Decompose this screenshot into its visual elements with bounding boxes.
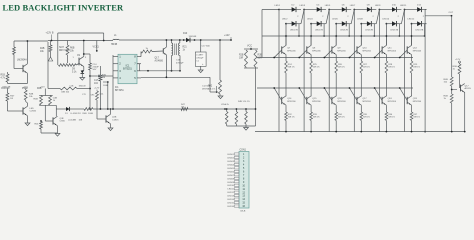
- wire Q19 emitter: [411, 105, 413, 112]
- wire VCC bottom: [244, 67, 258, 69]
- svg-text:MPS2206: MPS2206: [337, 101, 345, 103]
- svg-text:R4B: R4B: [83, 113, 88, 115]
- resistor R36 30R lower: [385, 112, 388, 121]
- transistor Q18 A1015: [460, 85, 462, 92]
- wire col 4 to rail: [360, 121, 362, 132]
- node LED5: [328, 9, 330, 11]
- resistor R4B 10k: [49, 45, 52, 52]
- svg-text:1R: 1R: [10, 98, 13, 100]
- svg-text:20R 1%: 20R 1%: [363, 67, 370, 69]
- wire LED vertical A col 4: [353, 10, 355, 132]
- wire Q11 base: [375, 50, 383, 58]
- wire h net 109: [70, 108, 84, 110]
- wire diag col 1: [301, 10, 304, 24]
- wire loop top: [58, 32, 104, 34]
- svg-text:100B: 100B: [88, 113, 93, 115]
- svg-text:Q3F: Q3F: [60, 118, 65, 120]
- zener diode D5: [81, 71, 84, 74]
- svg-text:50V: 50V: [93, 69, 97, 71]
- svg-text:+12V: +12V: [455, 59, 461, 61]
- resistor R26 20R upper: [335, 61, 338, 73]
- svg-text:C17 600: C17 600: [202, 46, 211, 48]
- wire Q18 emitter to rail: [464, 92, 466, 132]
- wire LED vertical A col 3: [328, 10, 330, 132]
- diode D12 top: [405, 9, 418, 11]
- IC U1 pin 1: [113, 56, 118, 58]
- svg-text:LED04: LED04: [227, 164, 234, 166]
- svg-text:LED: LED: [30, 108, 35, 110]
- wire Q7 base: [274, 50, 282, 58]
- IC U1 pin 3: [113, 70, 118, 72]
- svg-text:LED10: LED10: [382, 18, 389, 20]
- svg-text:LED12: LED12: [227, 192, 234, 194]
- transistor Q11 MPS2206 upper: [381, 46, 383, 53]
- wire pin6 right: [141, 70, 180, 72]
- CON1 pin 15: [234, 201, 239, 203]
- svg-text:LED17B: LED17B: [365, 30, 373, 32]
- diode D2 top: [279, 9, 292, 11]
- svg-text:C945: C945: [60, 121, 66, 123]
- svg-text:LED06: LED06: [227, 171, 234, 173]
- CON1 pin 6: [234, 170, 239, 172]
- wire LED vertical B col 6: [411, 24, 413, 46]
- svg-text:R4B: R4B: [444, 96, 449, 98]
- wire Q9 base: [324, 50, 332, 58]
- svg-text:C1Y: C1Y: [82, 94, 87, 96]
- svg-text:LED15: LED15: [227, 203, 234, 205]
- svg-text:MPS2206: MPS2206: [312, 50, 320, 52]
- diode D10 1N4148 on rail: [186, 38, 190, 42]
- wire drop col 1: [298, 24, 300, 36]
- svg-text:1N4148: 1N4148: [79, 86, 87, 88]
- wire col 3 to rail: [335, 121, 337, 132]
- CON1 pin 4: [234, 163, 239, 165]
- svg-text:MPS2206: MPS2206: [287, 50, 295, 52]
- svg-text:30R 1%: 30R 1%: [413, 117, 420, 119]
- svg-text:+12V: +12V: [40, 86, 46, 88]
- svg-text:LED1: LED1: [275, 5, 281, 7]
- diode D2b bottom: [286, 23, 292, 25]
- svg-text:DRV MGR: DRV MGR: [59, 50, 70, 52]
- resistor R37 30R lower: [410, 112, 413, 121]
- transistor Q9 MPS2206 upper: [331, 46, 333, 53]
- wire rail to +12V right: [119, 39, 231, 41]
- svg-text:MPS2206: MPS2206: [363, 50, 371, 52]
- resistor R25 20R upper: [310, 61, 313, 73]
- IC U1 BIT3251: [118, 54, 137, 83]
- CON1 pin 9: [234, 181, 239, 183]
- wire Q12 base: [400, 50, 408, 58]
- wire to Q3 base: [44, 105, 46, 121]
- wire v 106.8: [107, 82, 109, 109]
- wire last cell out: [425, 9, 426, 11]
- CON1 pin 2: [234, 156, 239, 158]
- transistor Q3 C945: [52, 117, 54, 124]
- wire out vertical: [451, 16, 453, 77]
- wire Q3 emitter: [57, 126, 59, 133]
- svg-text:30R 1%: 30R 1%: [388, 117, 395, 119]
- svg-text:R5B: R5B: [453, 66, 458, 68]
- transistor Q19 MPS2206 lower: [406, 97, 408, 104]
- resistor R4T 1R: [6, 89, 8, 94]
- wire R pair top: [39, 95, 53, 97]
- CON1 pin 12: [234, 191, 239, 193]
- diode D6b bottom: [336, 23, 342, 25]
- resistor R33 30R lower: [310, 112, 313, 121]
- wire Q7 collector: [285, 36, 287, 45]
- svg-text:IC1: IC1: [126, 65, 130, 68]
- wire Q1 collector: [26, 41, 28, 64]
- svg-text:1M: 1M: [102, 77, 105, 79]
- svg-text:+12V B: +12V B: [46, 32, 54, 35]
- CON1 pin 10: [234, 184, 239, 186]
- svg-text:MPS2206: MPS2206: [413, 50, 421, 52]
- wire LED vertical A col 5: [378, 10, 380, 132]
- CON1 pin 5: [234, 167, 239, 169]
- wire diag col 4: [376, 10, 379, 24]
- wire Q17 base: [350, 88, 358, 101]
- wire R pair bottom: [39, 104, 56, 106]
- wire Q18 emitter: [385, 105, 387, 112]
- wire bottom rail: [255, 131, 466, 133]
- resistor R24 20R upper: [285, 61, 288, 73]
- terminal +12V out: [459, 61, 461, 63]
- resistor R28 20R upper: [385, 61, 388, 73]
- resistor R51 10k: [450, 77, 453, 86]
- svg-text:C1B: C1B: [70, 85, 75, 87]
- diode D6 top: [329, 9, 342, 11]
- wire Q10 collector: [360, 36, 362, 45]
- svg-text:MPS2206: MPS2206: [413, 101, 421, 103]
- svg-text:LED4: LED4: [307, 18, 313, 20]
- wire diag col 3: [351, 10, 354, 24]
- wire Q9 emitter: [335, 55, 337, 61]
- svg-text:C8B 100: C8B 100: [61, 92, 70, 94]
- resistor R34 30R lower: [335, 112, 338, 121]
- ground below zener: [80, 78, 85, 81]
- svg-text:CN-B: CN-B: [240, 210, 246, 212]
- svg-text:20R 1%: 20R 1%: [413, 67, 420, 69]
- wire Q14 base: [274, 88, 282, 101]
- IC U1 pin 8: [137, 56, 141, 58]
- resistor R32 30R lower: [285, 112, 288, 121]
- wire Q19 base: [400, 88, 408, 101]
- wire diag col 5: [401, 10, 404, 24]
- wire bank bottom: [227, 125, 256, 127]
- transistor Q17 MPS2206 lower: [356, 97, 358, 104]
- CON1 pin 11: [234, 188, 239, 190]
- CON1 pin 7: [234, 174, 239, 176]
- svg-text:MPS2206: MPS2206: [337, 50, 345, 52]
- wire bottom left: [48, 88, 60, 90]
- transistor Q4 C1815: [105, 115, 107, 122]
- resistor R8B 1M: [60, 87, 77, 90]
- svg-text:Q2B: Q2B: [112, 117, 117, 119]
- svg-text:R4B: R4B: [444, 79, 449, 81]
- svg-text:20R 1%: 20R 1%: [338, 67, 345, 69]
- svg-text:R1B: R1B: [1, 75, 6, 77]
- wire LED vertical A col 2: [303, 10, 305, 132]
- node LED1: [278, 9, 280, 11]
- CON1 pin 3: [234, 160, 239, 162]
- wire h net 109 right: [93, 108, 256, 110]
- wire R52 to rail: [451, 103, 453, 132]
- svg-text:10k 1%: 10k 1%: [208, 89, 215, 91]
- arrow 12V down: [48, 57, 52, 61]
- capacitor C19 electrolytic box: [200, 40, 202, 52]
- svg-text:30R 1%: 30R 1%: [363, 117, 370, 119]
- resistor R6B 10k vertical: [67, 41, 69, 46]
- svg-text:LCMET: LCMET: [196, 55, 204, 57]
- node OUT: [451, 15, 453, 17]
- transistor Q1 C945: [22, 65, 24, 72]
- svg-text:MPS2206: MPS2206: [287, 101, 295, 103]
- resistor R27 20R upper: [360, 61, 363, 73]
- wire Q16 emitter: [335, 105, 337, 112]
- ground Q2L: [25, 123, 30, 126]
- wire pin5 corner: [209, 77, 211, 92]
- IC U1 pin 2: [113, 63, 118, 65]
- svg-text:1.2k: 1.2k: [225, 104, 229, 106]
- svg-text:30R 1%: 30R 1%: [338, 117, 345, 119]
- resistor R42 1k: [49, 96, 52, 106]
- wire base bus y57.5: [257, 57, 413, 59]
- wire LED vertical B col 2: [310, 24, 312, 46]
- svg-text:LL4148 P4: LL4148 P4: [71, 113, 82, 115]
- wire left vertical: [13, 41, 15, 47]
- svg-text:+12V: +12V: [224, 34, 230, 37]
- wire Q2 emitter: [83, 67, 85, 71]
- svg-text:HR4B: HR4B: [111, 44, 118, 46]
- diode D1 LL4148: [56, 108, 66, 110]
- wire Q12 collector: [411, 36, 413, 45]
- resistor R29 20R upper: [410, 61, 413, 73]
- svg-text:LED10: LED10: [227, 185, 234, 187]
- wire Q4 emitter gnd: [110, 124, 112, 128]
- wire LED vertical B col 1: [285, 24, 287, 46]
- wire to Q4 base: [96, 100, 98, 119]
- CON1 pin 13: [234, 195, 239, 197]
- transistor Q14 MPS2206 lower: [281, 97, 283, 104]
- svg-text:1N4148: 1N4148: [189, 36, 197, 38]
- resistor C14 column: [89, 63, 92, 70]
- svg-text:BIT3251: BIT3251: [123, 69, 132, 71]
- svg-text:R4B: R4B: [34, 99, 39, 101]
- svg-text:LED8: LED8: [357, 18, 363, 20]
- wire Q10 base: [350, 50, 358, 58]
- svg-text:BIT3251: BIT3251: [115, 90, 124, 92]
- svg-text:LED16: LED16: [227, 206, 234, 208]
- CON1 pin 8: [234, 177, 239, 179]
- resistor R40 1M vertical: [99, 66, 101, 75]
- wire Q2L collector: [27, 103, 29, 106]
- transistor Q10 MPS2206 upper: [356, 46, 358, 53]
- wire Q18 base: [375, 88, 383, 101]
- transistor Q8 MPS2206 upper: [306, 46, 308, 53]
- transistor Q2L C945: [22, 107, 24, 114]
- diode D10 top: [379, 9, 392, 11]
- wire Q2L emitter to ground: [27, 116, 29, 123]
- wire Q16 base: [324, 88, 332, 101]
- wire col 5 to rail: [385, 121, 387, 132]
- svg-text:LED5: LED5: [325, 5, 331, 7]
- svg-text:LED17B: LED17B: [416, 30, 424, 32]
- node LED11: [404, 9, 406, 11]
- resistor R21 1k IC pin8 to Q17: [140, 52, 142, 57]
- svg-text:LED11: LED11: [228, 189, 235, 191]
- wire drop col 6: [424, 24, 426, 36]
- svg-text:LED17B: LED17B: [390, 30, 398, 32]
- resistor R on left vertical: [13, 47, 16, 55]
- ground R42: [218, 96, 223, 99]
- svg-text:C2945: C2945: [30, 111, 37, 113]
- diode D8 top: [354, 9, 367, 11]
- wire col 6 to rail: [411, 121, 413, 132]
- wire LED vertical A col 1: [278, 10, 280, 132]
- wire LED vertical B col 5: [385, 24, 387, 46]
- svg-text:MPS2206: MPS2206: [363, 101, 371, 103]
- svg-text:LED08: LED08: [227, 178, 234, 180]
- resistor R28 10R: [244, 48, 258, 50]
- transformer T1 primary: [172, 43, 173, 56]
- svg-text:VCC1: VCC1: [93, 46, 100, 49]
- svg-text:AO4606: AO4606: [155, 60, 164, 63]
- svg-text:LED6: LED6: [332, 18, 338, 20]
- wire drop col 2: [323, 24, 325, 36]
- wire base bus y88: [257, 87, 413, 89]
- wire R53 to base: [459, 74, 461, 88]
- wire long vertical x90: [84, 53, 90, 55]
- svg-text:LED07: LED07: [227, 175, 234, 177]
- resistor R53 1k: [459, 63, 461, 64]
- IC U1 pin 7: [137, 63, 141, 65]
- capacitor C17: [90, 75, 98, 77]
- svg-text:4700pF: 4700pF: [196, 58, 204, 60]
- IC U1 pin 6: [137, 70, 141, 72]
- svg-text:A1015: A1015: [465, 87, 472, 90]
- wire drop col 4: [373, 24, 375, 36]
- svg-text:VCC: VCC: [247, 45, 252, 48]
- wire LED vertical A col 6: [404, 10, 406, 132]
- wire Q11 collector: [385, 36, 387, 45]
- transistor Q2 C945: [76, 64, 79, 66]
- svg-text:LED13: LED13: [227, 196, 234, 198]
- resistor R41 10k: [40, 96, 43, 106]
- resistor bank R44 R45 R46: [226, 109, 228, 112]
- svg-text:LL4148B: LL4148B: [68, 120, 77, 122]
- wire v x220: [219, 40, 221, 80]
- svg-text:+12V: +12V: [23, 86, 29, 88]
- svg-text:R42: R42: [208, 86, 213, 88]
- svg-text:ON/CTR: ON/CTR: [2, 86, 11, 88]
- svg-text:20R 1%: 20R 1%: [313, 67, 320, 69]
- wire Q8 collector: [310, 36, 312, 45]
- svg-text:30R 1%: 30R 1%: [288, 117, 295, 119]
- wire +12V rail: [14, 40, 48, 42]
- ground Q3: [55, 134, 60, 137]
- transistor Q12 MPS2206 upper: [406, 46, 408, 53]
- wire base link: [452, 89, 457, 91]
- svg-text:LED BACKLIGHT INVERTER: LED BACKLIGHT INVERTER: [3, 3, 125, 13]
- svg-text:4700pF: 4700pF: [176, 63, 184, 65]
- wire col 2 to rail: [310, 121, 312, 132]
- wire Q8 emitter: [310, 55, 312, 61]
- wire Q7 emitter: [285, 55, 287, 61]
- svg-text:LED17B: LED17B: [340, 30, 348, 32]
- diode D8b bottom: [361, 23, 367, 25]
- resistor R1B 4.7k: [6, 74, 9, 82]
- wire Q15 emitter: [310, 105, 312, 112]
- svg-text:C1B: C1B: [176, 60, 181, 62]
- resistor R2L 10k: [25, 89, 27, 91]
- wire Q8 base: [299, 50, 307, 58]
- CON1 pin 14: [234, 198, 239, 200]
- wire anode feed top: [262, 9, 279, 11]
- wire Q2 collector: [83, 41, 85, 57]
- wire Q12 emitter: [411, 55, 413, 61]
- svg-text:LED9: LED9: [375, 5, 381, 7]
- svg-text:LED12: LED12: [408, 18, 415, 20]
- resistor R47 10k h: [181, 108, 188, 111]
- wire LED vertical B col 4: [360, 24, 362, 46]
- svg-text:20R 1%: 20R 1%: [388, 67, 395, 69]
- diode D10b bottom: [386, 23, 392, 25]
- wire col 1 to rail: [285, 121, 287, 132]
- svg-text:MPS2206: MPS2206: [312, 101, 320, 103]
- svg-text:LED11: LED11: [400, 5, 407, 7]
- svg-text:C1815: C1815: [112, 119, 119, 121]
- resistor R35 30R lower: [360, 112, 363, 121]
- wire C19 to ground: [200, 66, 202, 70]
- svg-text:LED7: LED7: [350, 5, 356, 7]
- svg-text:30R 1%: 30R 1%: [313, 117, 320, 119]
- wire Q11 emitter: [385, 55, 387, 61]
- wire Q9 collector: [335, 36, 337, 45]
- svg-text:C17: C17: [94, 80, 99, 82]
- svg-text:LED3: LED3: [300, 5, 306, 7]
- svg-text:LM2904A: LM2904A: [17, 59, 27, 62]
- svg-text:Q17: Q17: [155, 58, 160, 60]
- transistor Q16 MPS2206 lower: [331, 97, 333, 104]
- wire drop col 3: [348, 24, 350, 36]
- node LED9: [379, 9, 381, 11]
- diode D12b bottom: [412, 23, 418, 25]
- resistor R52 1k: [450, 94, 453, 103]
- svg-text:100B: 100B: [103, 85, 108, 87]
- svg-text:LED09: LED09: [227, 182, 234, 184]
- CON1 pin 16: [234, 205, 239, 207]
- IC U1 pin 4: [113, 77, 118, 79]
- svg-text:OUT: OUT: [449, 12, 454, 14]
- resistor R44 1k: [96, 91, 99, 100]
- svg-text:LED01: LED01: [227, 154, 234, 156]
- wire Q15 base: [299, 88, 307, 101]
- svg-text:R6B: R6B: [70, 48, 75, 50]
- wire Q17 vertical: [165, 40, 167, 47]
- wire drop col 5: [398, 24, 400, 36]
- wire LED vertical B col 3: [335, 24, 337, 46]
- wire to Q2L base: [7, 110, 23, 112]
- svg-text:R4B: R4B: [40, 48, 45, 50]
- svg-text:R21: R21: [183, 47, 188, 49]
- fuse F1 on rail: [113, 38, 119, 41]
- resistor R30 10R: [254, 50, 257, 67]
- resistor R42 10k 1%: [219, 80, 222, 94]
- transistor Q15 MPS2206 lower: [306, 97, 308, 104]
- wire out to node: [425, 15, 451, 17]
- svg-text:D10: D10: [183, 33, 188, 35]
- transformer T1 secondary: [179, 43, 180, 56]
